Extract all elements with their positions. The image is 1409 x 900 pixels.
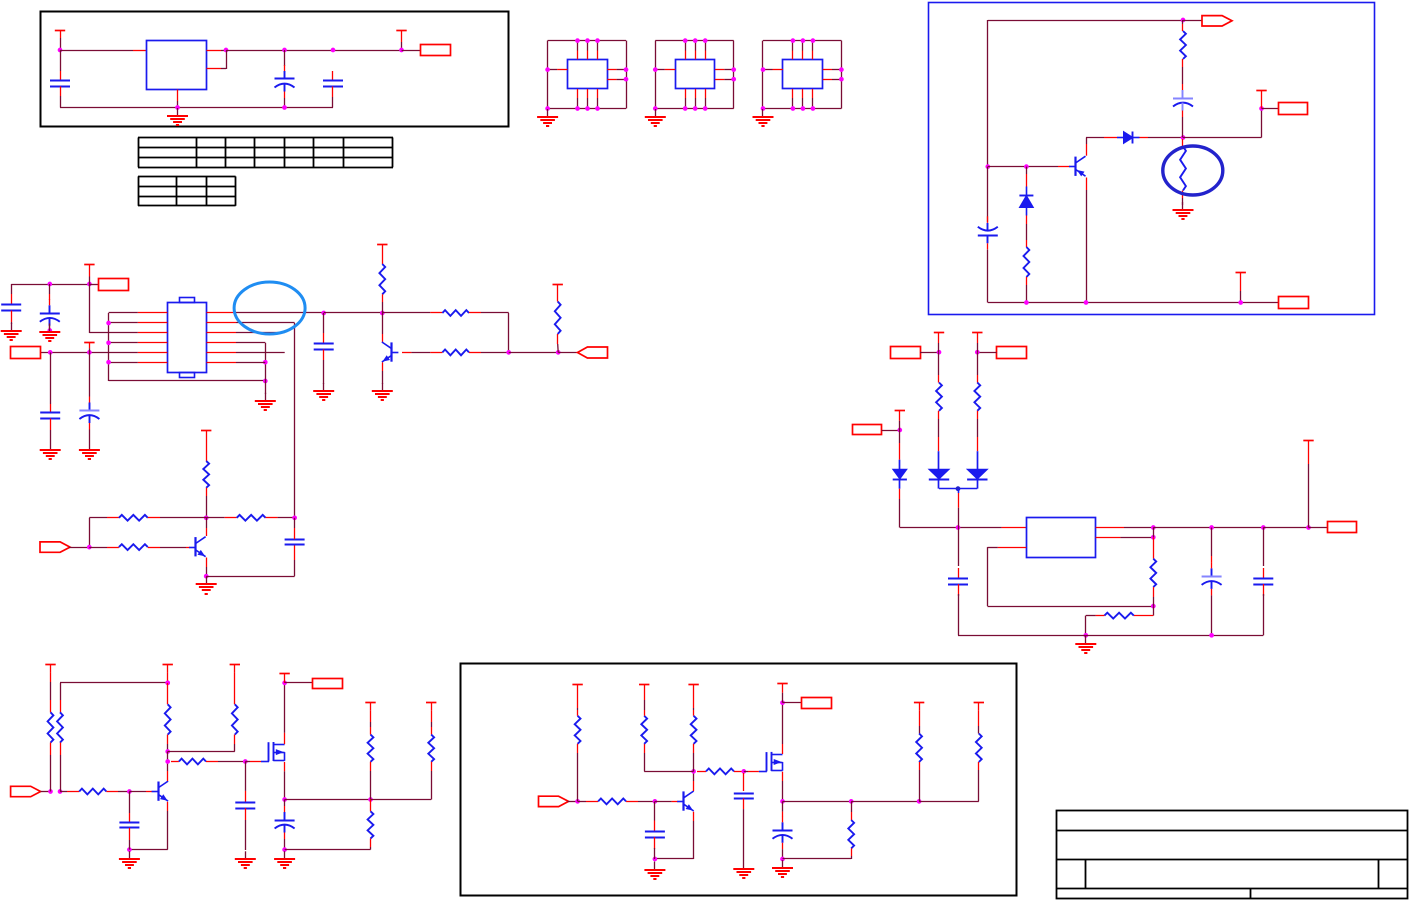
- wire C9 down: [50, 352, 52, 404]
- wire C8 to gnd: [89, 430, 91, 443]
- junction U1 out: [224, 48, 229, 53]
- pin U2 bot3: [597, 89, 599, 98]
- wire bus row4: [109, 342, 138, 344]
- wire R10 top stub: [1182, 20, 1184, 24]
- pin U2 right1: [607, 69, 616, 71]
- capacitor C6: [1, 305, 21, 311]
- junction R39 top: [849, 799, 854, 804]
- pin U3 bot1: [685, 89, 687, 98]
- pin R38.2: [734, 771, 744, 773]
- wire U2 top rail: [548, 40, 626, 42]
- wire R18 to R19: [160, 517, 225, 519]
- pin R15.2: [469, 352, 481, 354]
- wire U4 bot1: [792, 98, 794, 109]
- pin Q2 base: [402, 352, 411, 354]
- junction U3 gnd: [653, 106, 658, 111]
- ground U3: [645, 109, 666, 127]
- capacitor C3: [323, 81, 343, 87]
- wire Q3 collector: [206, 518, 208, 528]
- capacitor C17 (polarized): [275, 806, 295, 839]
- junction bus row2: [106, 321, 111, 326]
- resistor R25: [48, 712, 54, 742]
- port CTRL_IN: [11, 347, 41, 359]
- junction source node 2: [780, 799, 785, 804]
- pin R20.2: [148, 547, 160, 549]
- pin R34 vcc: [577, 693, 579, 708]
- diode D1: [1117, 132, 1140, 144]
- transistor M1 (NMOS): [261, 742, 285, 762]
- resistor R32: [428, 735, 434, 762]
- junction C2 bottom: [282, 105, 287, 110]
- pin U4 top2: [802, 51, 804, 60]
- pin R26.2: [60, 743, 62, 755]
- ground C6: [1, 323, 22, 341]
- pin Q4 emitter: [167, 802, 169, 811]
- junction emitter bottom: [1084, 300, 1089, 305]
- pin R37 vcc: [693, 693, 695, 708]
- pin R40.2: [919, 762, 921, 770]
- resistor R28: [79, 789, 106, 795]
- junction R31 node: [368, 797, 373, 802]
- table title block: [1056, 811, 1407, 899]
- wire C13 upper: [1211, 528, 1213, 557]
- wire R29 down: [234, 744, 236, 752]
- wire C9 to gnd: [50, 430, 52, 442]
- transistor Q2 (NPN mirrored): [382, 342, 399, 362]
- diode D2: [1019, 187, 1033, 216]
- junction gate C16: [243, 759, 248, 764]
- junction VCC2: [399, 48, 404, 53]
- pin U1.2: [207, 68, 222, 70]
- ground C8: [79, 442, 100, 460]
- ground U4: [753, 109, 774, 127]
- pin R41.2: [978, 762, 980, 770]
- port PWR_IN: [99, 279, 129, 291]
- pin U2 bot1: [577, 89, 579, 98]
- wire R34 upper: [577, 708, 579, 710]
- wire R10 to C5: [1182, 67, 1184, 84]
- pin R39.1: [851, 812, 853, 820]
- resistor R37: [691, 716, 697, 744]
- junction C3 top: [331, 48, 336, 53]
- pin C18.2: [654, 837, 656, 849]
- enclosure box 2: [929, 3, 1375, 315]
- wire upper to R14: [382, 312, 430, 314]
- IC U3: [676, 60, 715, 89]
- junction R34 bottom: [575, 799, 580, 804]
- pin R16.2: [557, 334, 559, 344]
- power VCC17: [279, 674, 289, 683]
- wire U2 bot1: [577, 98, 579, 109]
- wire C12 down: [958, 594, 960, 635]
- pin R16.1: [557, 292, 559, 302]
- wire R24 down: [1085, 616, 1087, 636]
- pin R17.1: [206, 438, 208, 461]
- pin C9.2: [50, 419, 52, 431]
- wire base node: [988, 166, 1058, 168]
- wire R12 to bottom: [1026, 285, 1028, 303]
- resistor R30: [179, 759, 206, 765]
- power VCC5: [84, 265, 94, 277]
- pin Q3 emitter: [206, 558, 208, 568]
- pin D5 anode: [977, 437, 979, 451]
- pin R10.1: [1182, 24, 1184, 31]
- power VCC12: [972, 333, 982, 344]
- resistor R29: [232, 704, 238, 734]
- junction base node left: [985, 164, 990, 169]
- pin R34.1: [577, 710, 579, 716]
- wire M1 drain up: [284, 683, 286, 733]
- wire U2 bot3: [597, 98, 599, 109]
- pin R12.2: [1026, 277, 1028, 285]
- wire R36 lower: [644, 753, 646, 771]
- wire VCC10 stem: [899, 421, 901, 430]
- pin C3.1: [332, 71, 334, 81]
- pin U2 top2: [587, 51, 589, 60]
- wire U4 right rail: [841, 41, 843, 109]
- power VCC23: [777, 684, 787, 693]
- wire to R20: [89, 547, 107, 549]
- wire U4 top1: [792, 41, 794, 51]
- pin R13.2: [382, 294, 384, 302]
- junction U2 top1: [575, 38, 580, 43]
- junction gnd node U5: [263, 379, 268, 384]
- pin R39.2: [851, 848, 853, 856]
- pin Q2 collector: [382, 334, 384, 343]
- pin C14.1: [1263, 568, 1265, 578]
- pin C20.1: [782, 812, 784, 817]
- pin U2 right2: [607, 79, 616, 81]
- resistor R41: [976, 734, 982, 763]
- junction U3 top2: [693, 38, 698, 43]
- pin R29.1: [234, 697, 236, 704]
- pin R24.1: [1134, 615, 1154, 617]
- pin U2 left: [557, 69, 567, 71]
- pin U2 top1: [577, 51, 579, 60]
- pin U3 top1: [685, 51, 687, 60]
- pin U1.1: [133, 50, 147, 52]
- port PWM2_IN (arrow): [539, 796, 569, 806]
- power VCC20: [572, 685, 582, 694]
- wire OR to rail: [958, 508, 960, 528]
- pin C19.1: [743, 773, 745, 791]
- ground Q3: [196, 576, 217, 595]
- wire VCC5 stem: [89, 277, 91, 285]
- junction row6 join: [263, 360, 268, 365]
- junction gate node: [165, 759, 170, 764]
- wire to port2: [1262, 108, 1279, 110]
- pin Q4 collector: [167, 771, 169, 781]
- pin R18.2: [148, 517, 160, 519]
- capacitor C16: [235, 803, 255, 809]
- wire bus bottom: [109, 380, 266, 382]
- pin C3.2: [332, 86, 334, 97]
- junction R12 bottom: [1024, 300, 1029, 305]
- junction U4 bot1: [791, 106, 796, 111]
- power VCC6: [84, 342, 94, 348]
- junction U3 left: [653, 67, 658, 72]
- resistor R18: [119, 515, 148, 521]
- pin Q3 collector: [206, 528, 208, 536]
- pin U4 bot1: [792, 89, 794, 98]
- resistor R17: [203, 461, 209, 488]
- pin C12.2: [958, 584, 960, 596]
- port VBAT1: [853, 425, 882, 435]
- ground GND1: [167, 108, 188, 126]
- wire C14 down: [1263, 594, 1265, 635]
- wire C10 upper: [323, 313, 325, 333]
- wire C19 down: [743, 809, 745, 861]
- wire U4 right2: [832, 79, 841, 81]
- wire to C2: [284, 50, 286, 66]
- wire VCC2 stem: [401, 42, 403, 50]
- wire R35 out: [638, 801, 655, 803]
- pin R35.1: [586, 801, 598, 803]
- wire M2 drain up: [782, 703, 784, 744]
- junction SENSE node: [1151, 535, 1156, 540]
- pin Q5 collector: [693, 781, 695, 791]
- transistor M2 (NMOS): [759, 752, 783, 772]
- IC U5 bottom tab: [180, 373, 195, 378]
- wire VIN to U1: [60, 50, 133, 52]
- wire R26 top link: [60, 682, 168, 684]
- pin D3 anode: [899, 443, 901, 460]
- wire to R16 node: [509, 352, 559, 354]
- wire row3 stub: [236, 332, 285, 334]
- wire C18 down: [654, 848, 656, 859]
- pin R21.1: [938, 375, 940, 383]
- pin U5 right2: [207, 322, 237, 324]
- junction C14 top: [1261, 525, 1266, 530]
- wire R37 upper: [693, 708, 695, 710]
- junction R22 top: [975, 350, 980, 355]
- wire to port3: [89, 284, 99, 286]
- wire U4 left rail: [762, 41, 764, 109]
- wire U2 top3: [597, 41, 599, 51]
- pin U5 left2: [138, 322, 168, 324]
- wire U3 top3: [705, 41, 707, 51]
- wire VCC11 stem: [938, 343, 940, 352]
- pin C10.1: [323, 333, 325, 344]
- power VCC9: [201, 430, 211, 438]
- wire U4 bot2: [802, 98, 804, 109]
- junction VREF: [1259, 106, 1264, 111]
- junction U3 right1: [731, 67, 736, 72]
- wire row1 net: [236, 312, 324, 314]
- wire pin3 row: [89, 332, 137, 334]
- pin U6 SENSE: [1096, 537, 1121, 539]
- resistor R31: [368, 735, 374, 762]
- diode D4: [929, 451, 949, 488]
- pin R27 upper: [167, 683, 169, 697]
- junction feedback: [506, 350, 511, 355]
- wire source rail 2: [371, 799, 432, 801]
- wire output rail: [1153, 527, 1263, 529]
- wire R40 down: [919, 770, 921, 801]
- junction U2 gnd: [545, 106, 550, 111]
- wire Q5 emitter down: [693, 821, 695, 859]
- resistor R26: [57, 712, 63, 742]
- wire R17 down: [206, 496, 208, 518]
- wire VCC6 stem: [89, 348, 91, 352]
- wire U2 left rail: [547, 41, 549, 109]
- wire D1 to node: [1148, 137, 1183, 139]
- wire row6 net: [236, 362, 265, 364]
- pin R24.2: [1096, 615, 1105, 617]
- wire R40 upper: [919, 726, 921, 734]
- wire vdd rail left: [11, 284, 89, 286]
- pin M1 gate: [250, 761, 261, 763]
- wire C6 to gnd: [11, 322, 13, 324]
- wire up to port node: [1261, 109, 1263, 138]
- wire VDD down to pin3: [89, 284, 91, 333]
- junction U3 bot3: [703, 106, 708, 111]
- wire U2 top1: [577, 41, 579, 51]
- wire Q1 emitter down: [1086, 190, 1088, 303]
- junction C13 bottom: [1209, 633, 1214, 638]
- wire to C20: [782, 801, 784, 811]
- capacitor C4 (polarized flipped): [978, 216, 998, 249]
- pin R31 vcc: [370, 711, 372, 722]
- pin M2 drain: [782, 744, 784, 754]
- wire VCC1 stem: [60, 38, 62, 50]
- pin R36.2: [644, 744, 646, 753]
- wire upper branch left: [89, 517, 107, 519]
- wire C20 down: [782, 849, 784, 859]
- pin C1.2: [60, 86, 62, 96]
- wire U2 right rail: [626, 41, 628, 109]
- wire VCC4 stem: [1240, 291, 1242, 303]
- power VCC22: [688, 685, 698, 694]
- junction R27 node: [165, 681, 170, 686]
- pin U3 right2: [715, 79, 724, 81]
- pin Q5 base: [672, 801, 678, 803]
- pin R40 vcc: [919, 711, 921, 726]
- ground U2: [537, 109, 558, 127]
- power VCC7: [377, 245, 387, 254]
- junction drain node: [282, 681, 287, 686]
- junction C12 top: [956, 525, 961, 530]
- resistor R36: [641, 716, 647, 744]
- pin R25.2: [50, 743, 52, 755]
- wire R13 to node: [382, 302, 384, 313]
- pin U5 left5: [138, 352, 168, 354]
- junction U4 bot3: [811, 106, 816, 111]
- ground rail2: [1075, 636, 1096, 655]
- pin Q5 emitter: [693, 812, 695, 821]
- wire port to D3: [882, 430, 900, 432]
- capacitor C8 (light plate): [79, 397, 99, 430]
- wire ground rail box1: [60, 107, 333, 109]
- wire to gnd U5: [265, 381, 267, 394]
- pin D4 anode: [938, 437, 940, 451]
- wire to M2 gate: [744, 771, 748, 773]
- wire C15 upper: [129, 792, 131, 814]
- wire R31 upper: [370, 722, 372, 727]
- pin C6.1: [11, 294, 13, 305]
- wire C5 to node: [1182, 117, 1184, 138]
- wire VCC23 stem: [782, 693, 784, 703]
- wire VCC13 stem: [1308, 464, 1310, 528]
- resistor R11 (circled): [1180, 147, 1186, 191]
- wire C6 top: [11, 284, 13, 294]
- wire to C4: [987, 167, 989, 222]
- pin R28.2: [106, 791, 118, 793]
- wire R20 to base: [160, 547, 186, 549]
- junction U4 top2: [801, 38, 806, 43]
- junction Q4 base node: [127, 789, 132, 794]
- junction U2 top2: [585, 38, 590, 43]
- pin U5 right5: [207, 352, 237, 354]
- wire U2 right2: [617, 79, 626, 81]
- junction gnd rail: [175, 105, 180, 110]
- wire row2 long vertical: [294, 323, 296, 518]
- wire R39 upper: [851, 801, 853, 812]
- wire C12 upper: [958, 528, 960, 567]
- pin R30.2: [206, 761, 218, 763]
- wire Q1 to D1: [1086, 137, 1104, 139]
- pin C12.1: [958, 568, 960, 578]
- pin R33.2: [370, 839, 372, 848]
- pin Q1 emitter: [1086, 178, 1088, 191]
- pin U3 left: [665, 69, 675, 71]
- junction VOUT port: [1306, 525, 1311, 530]
- wire base to R15: [411, 352, 430, 354]
- pin R36 vcc: [644, 693, 646, 700]
- wire Q3 emitter down: [206, 567, 208, 576]
- power VCC21: [639, 685, 649, 694]
- ground U5: [255, 393, 276, 411]
- wire collector: [382, 313, 384, 334]
- wire M2 source down: [782, 781, 784, 801]
- wire R22 to D5: [977, 419, 979, 437]
- junction U2 top3: [595, 38, 600, 43]
- IC U4: [783, 60, 823, 89]
- wire bottom rail box2: [988, 302, 1279, 304]
- wire U1 gnd: [177, 101, 179, 108]
- wire row1 to Q2: [324, 312, 383, 314]
- wire to port6: [1263, 527, 1308, 529]
- pin Q2 emitter: [382, 362, 384, 371]
- power VCC10: [895, 411, 905, 421]
- wire node to port: [977, 352, 996, 354]
- power VCC15: [163, 664, 173, 672]
- wire U3 bot3: [705, 98, 707, 109]
- junction VCC4 bottom: [1238, 300, 1243, 305]
- resistor R10: [1180, 31, 1186, 59]
- wire C16 upper: [245, 762, 247, 791]
- wire C4 to bottom rail: [987, 250, 989, 303]
- wire U2 left pin: [548, 69, 558, 71]
- power VCC24: [914, 703, 924, 711]
- junction U4 top3: [811, 38, 816, 43]
- pin C15.1: [129, 813, 131, 822]
- wire U3 left pin: [655, 69, 665, 71]
- pin R22.2: [977, 411, 979, 419]
- pin U5 left1: [138, 312, 168, 314]
- pin U3 right1: [715, 69, 724, 71]
- capacitor C13 (light plate): [1202, 562, 1222, 595]
- power VCC1: [55, 30, 65, 38]
- pin R11.1: [1182, 139, 1184, 147]
- pin D1 anode: [1104, 137, 1117, 139]
- wire R25 down: [50, 755, 52, 792]
- pin U2 bot2: [587, 89, 589, 98]
- resistor R34: [575, 716, 581, 744]
- pin U3 top3: [705, 51, 707, 60]
- pin U6 OUT: [1096, 527, 1124, 529]
- junction U3 top1: [683, 38, 688, 43]
